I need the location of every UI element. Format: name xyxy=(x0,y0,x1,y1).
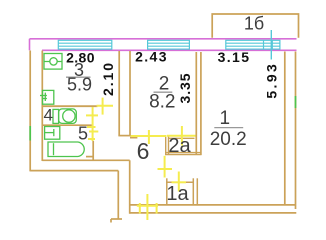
bottom wall of apartment xyxy=(130,205,297,213)
svg-text:1a: 1a xyxy=(166,183,189,205)
kitchen bottom wall xyxy=(42,105,97,107)
bathtub xyxy=(48,142,84,157)
room 1 door xyxy=(164,156,166,178)
window C balcony door room 1 xyxy=(226,40,280,49)
wall toilet/bath vs hall stubs xyxy=(86,141,93,160)
closet 2a door xyxy=(167,135,196,137)
svg-text:5: 5 xyxy=(78,123,88,143)
right exterior wall xyxy=(285,52,296,210)
door marks yellow xyxy=(86,98,196,220)
svg-text:20.2: 20.2 xyxy=(210,129,247,150)
svg-text:1: 1 xyxy=(220,108,231,129)
radiator mark green on right wall xyxy=(295,96,297,108)
closet 2a walls xyxy=(165,136,202,155)
svg-text:2a: 2a xyxy=(168,135,191,157)
wall toilet/bath divider xyxy=(42,124,93,126)
svg-text:3.35: 3.35 xyxy=(177,73,193,104)
entrance door xyxy=(137,205,158,207)
wall room 2 / room 1 xyxy=(196,52,201,155)
room 2 bottom wall stub xyxy=(130,137,137,139)
closet 1a walls xyxy=(166,178,197,204)
stove kitchen xyxy=(44,54,62,70)
svg-text:3.15: 3.15 xyxy=(218,49,251,65)
bath block bottom wall xyxy=(30,160,130,170)
svg-text:2.10: 2.10 xyxy=(100,61,116,96)
window A kitchen xyxy=(58,40,112,49)
riser mark green on left wall xyxy=(29,126,31,141)
svg-text:1б: 1б xyxy=(244,14,264,34)
svg-text:4: 4 xyxy=(43,106,52,125)
sink kitchen xyxy=(40,90,54,104)
balcony door divider cyan vertical xyxy=(270,30,272,60)
toilet xyxy=(53,109,76,124)
svg-text:6: 6 xyxy=(137,138,150,164)
toilet and bath doors xyxy=(92,107,94,141)
room 2 door xyxy=(131,135,167,137)
kitchen door xyxy=(97,105,114,107)
svg-text:5.9: 5.9 xyxy=(67,75,92,95)
svg-text:2.43: 2.43 xyxy=(135,49,168,65)
closet 1a door xyxy=(178,172,180,192)
washbasin bath xyxy=(45,127,60,140)
corridor walls xyxy=(111,160,130,222)
wall kitchen/hall vs room 2 xyxy=(118,51,130,136)
balcony 1b outline xyxy=(212,14,298,38)
svg-text:5.93: 5.93 xyxy=(264,62,280,99)
left exterior wall xyxy=(30,51,42,172)
svg-text:8.2: 8.2 xyxy=(149,92,175,113)
exterior wall top magenta lines xyxy=(30,39,297,51)
window B room 2 xyxy=(148,40,190,49)
